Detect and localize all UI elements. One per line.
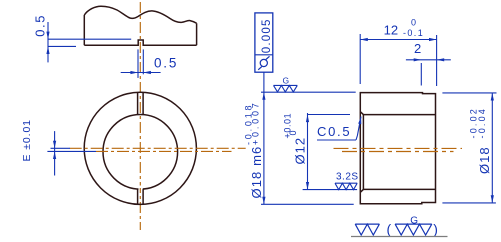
dim 2 ext line left — [420, 63, 422, 86]
front view bore centerline horizontal — [96, 150, 232, 152]
dim E ext line lower — [47, 150, 96, 152]
bore arc gap at bottom slit — [139, 186, 143, 193]
dim 2 arrow pointing right — [414, 58, 422, 61]
dim Ø18 m6 arrow down — [262, 197, 265, 205]
dim E dimension line — [54, 131, 56, 175]
svg-text:(: ( — [387, 221, 392, 237]
svg-text:Ø18: Ø18 — [477, 146, 492, 174]
dim 0.5 (slot width) dimension line — [121, 72, 161, 74]
svg-text:G: G — [410, 216, 418, 227]
svg-text:-0.04: -0.04 — [477, 107, 487, 139]
centerline vertical (front/top views) — [139, 2, 141, 230]
bottom note two triangles — [355, 224, 379, 235]
svg-text:C0.5: C0.5 — [317, 124, 351, 139]
top view bottom edge with slot notch — [84, 40, 196, 45]
front view bore circle — [103, 115, 178, 190]
dim 12 dimension line — [360, 39, 436, 41]
svg-text:0.5: 0.5 — [154, 56, 178, 71]
dim Ø12 ext line bottom — [303, 189, 358, 191]
bottom note three triangles — [395, 224, 432, 235]
dim 0.5 (slot depth) arrow down — [46, 32, 49, 40]
top view wavy break outline — [84, 6, 196, 23]
dim Ø12 arrow up — [306, 115, 309, 123]
svg-text:0.005: 0.005 — [261, 18, 273, 53]
dim Ø18 right dimension line — [491, 93, 493, 203]
dim Ø18 right arrow up — [491, 93, 494, 101]
dim Ø18 right ext line top — [442, 92, 496, 94]
dim Ø12 dimension line — [307, 113, 309, 189]
top view left edge — [83, 15, 85, 45]
chamfer leader underline — [317, 139, 356, 141]
dim 0.5 (slot depth) ext line upper — [48, 38, 131, 40]
svg-text:E ±0.01: E ±0.01 — [21, 119, 33, 161]
dim Ø18 m6 ext line bottom — [261, 203, 354, 205]
dim 2 arrow pointing left — [437, 58, 445, 61]
cylindricity symbol — [260, 59, 267, 66]
dim Ø18 right arrow down — [491, 195, 494, 203]
dim 12 arrow right — [429, 38, 437, 41]
dim 0.5 (slot width) arrow left — [143, 71, 151, 74]
dim Ø18 m6 arrow up — [262, 92, 265, 100]
svg-text:3.2S: 3.2S — [336, 172, 359, 183]
surface mark G (left, on ext line) triangles — [274, 85, 298, 92]
side view bore centerline — [342, 151, 454, 153]
dim 0.5 (slot width) ext line left — [137, 49, 139, 78]
surface mark 3.2S triangles — [335, 183, 357, 189]
svg-text:-0.1: -0.1 — [403, 28, 424, 38]
svg-text:0: 0 — [411, 18, 416, 28]
chamfer leader arrow — [358, 117, 361, 125]
svg-text:Ø18 m6: Ø18 m6 — [249, 146, 264, 199]
svg-text:Ø12: Ø12 — [293, 137, 308, 165]
dim E ext line upper — [51, 147, 71, 149]
slit top lines — [137, 93, 139, 115]
side view bore bottom line — [360, 189, 435, 192]
top view right edge — [196, 23, 198, 45]
dim E arrow down — [53, 141, 56, 149]
slit bottom lines — [137, 189, 139, 204]
dim 12 ext line left — [359, 34, 361, 84]
svg-text:2: 2 — [414, 41, 421, 56]
svg-text:+0.007: +0.007 — [251, 100, 261, 145]
svg-text:): ) — [433, 221, 438, 237]
svg-text:12: 12 — [384, 23, 398, 38]
dim 2 dimension line — [406, 59, 451, 61]
bottom note gray underline — [351, 236, 448, 238]
dim 0.5 (slot depth) dimension line — [47, 22, 49, 62]
front view outer circle — [84, 92, 196, 204]
dim 0.5 (slot depth) arrow up — [46, 46, 49, 54]
dim E arrow up — [53, 151, 56, 159]
side view OD centerline — [334, 147, 463, 149]
dim 12 arrow left — [360, 38, 368, 41]
dim 12 / dim 2 shared ext line right — [436, 35, 438, 86]
front view OD centerline horizontal — [70, 147, 246, 149]
dim 0.5 (slot depth) ext line lower — [48, 45, 76, 47]
dim Ø18 right ext line bottom — [442, 202, 496, 204]
side view bore chamfer edge line — [362, 115, 364, 190]
dim 0.5 (slot width) arrow right — [130, 71, 138, 74]
dim Ø12 arrow down — [306, 182, 309, 190]
side view outer profile — [360, 93, 435, 204]
svg-text:G: G — [283, 76, 290, 86]
svg-text:0: 0 — [288, 130, 298, 135]
dim Ø18 m6 dimension line (with frame leader) — [263, 72, 265, 204]
chamfer leader diagonal — [356, 117, 361, 141]
dim Ø18 m6 ext line top — [261, 91, 356, 93]
svg-text:0.5: 0.5 — [32, 14, 47, 37]
side view bore top line — [360, 112, 435, 115]
dim Ø12 ext line top — [308, 114, 351, 116]
cylindricity tolerance frame — [255, 13, 273, 72]
dim 0.5 (slot width) ext line right — [142, 49, 144, 74]
